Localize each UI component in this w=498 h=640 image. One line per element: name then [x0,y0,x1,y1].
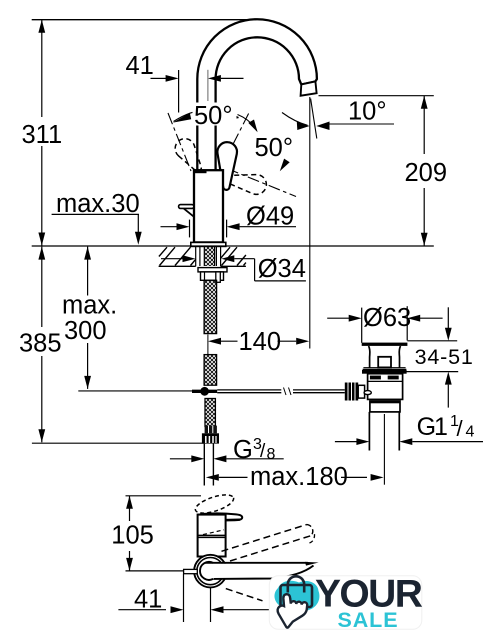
popup rod [217,389,281,391]
dimension 34-51 [407,340,457,342]
svg-text:41: 41 [126,52,154,80]
dimension 311 [41,20,43,246]
drain knob [378,357,391,368]
pivot knurled nut [345,383,358,401]
dimension D34 [161,258,183,260]
svg-text:300: 300 [64,317,107,345]
logo shopping bag [281,585,313,607]
base flange [191,242,226,246]
side tab [179,205,194,209]
label 50 deg second [253,136,299,159]
dimension max180 [206,474,219,481]
centerline right lower [227,169,296,197]
arc 10 deg [282,113,308,126]
svg-text:311: 311 [22,121,63,149]
svg-text:209: 209 [405,159,448,187]
svg-text:50°: 50° [255,134,294,162]
dimension G38 [170,458,192,460]
dimension D49 [189,220,191,238]
outlet axis line [309,97,311,349]
bottom view: body [198,515,226,557]
label 50 deg first [193,103,237,126]
aerator [301,81,317,95]
stream 10 deg line [311,99,317,139]
drain: dimension D63 [361,308,363,343]
drain mid flange [363,367,405,369]
shank in hole [199,247,201,266]
drain body [368,374,403,400]
dimension G1 1/4 [335,441,357,443]
logo card [269,576,422,630]
dimension 41 top [178,70,180,113]
supply hose A [204,280,217,333]
wire top reference line [32,19,249,21]
centerline right upper [225,114,249,162]
supply hose C [205,399,215,427]
hose break tick (140 extension) [207,335,209,355]
drain collar [370,401,400,412]
svg-text:/: / [457,416,464,441]
svg-text:max.: max. [62,292,117,320]
lever solid [217,142,237,190]
bottom view: solid lever knob [198,513,242,520]
svg-text:Ø63: Ø63 [363,304,411,332]
svg-text:8: 8 [267,446,276,463]
lever ghost right dashed [224,175,266,195]
supply hose B [204,355,217,386]
bottom view: side tab [184,569,198,573]
popup rod left reference [78,390,192,392]
bottom view: dashed swung spout [222,525,307,552]
centerline left 50 [168,113,191,171]
lever ghost left dashed [175,139,201,172]
spout neck line [301,81,315,84]
svg-text:G1: G1 [417,413,447,441]
G38 connector block [205,426,217,434]
dimension 140 [208,338,221,345]
svg-text:10°: 10° [348,98,387,126]
svg-text:105: 105 [111,522,154,550]
bottom view: dashed raised lever [193,491,235,517]
deck hatching left [159,247,196,265]
hose-end reference line [32,442,204,444]
bottom view: dashed swing line lower [226,589,263,601]
bottom view: dimension 105 [129,496,131,521]
arc 50 deg left [174,110,239,122]
svg-text:G: G [233,436,253,464]
svg-text:140: 140 [239,328,282,356]
spout outer wall [197,19,317,171]
logo hand [278,594,308,628]
deck hatching right [221,247,246,265]
deck bottom lines [159,265,196,267]
deck top line [32,245,434,247]
washer under deck [198,268,227,272]
deck hole edges [195,246,197,266]
spout inner wall [216,37,302,171]
faucet body [194,170,223,242]
svg-text:50°: 50° [194,102,233,130]
svg-text:max.180: max.180 [250,463,348,491]
arc 50 deg right [238,115,257,131]
dimension 209 [319,95,434,97]
supply pipe end [203,444,205,486]
logo teal blob [274,581,319,612]
max300 dimension [87,247,89,296]
svg-text:Ø49: Ø49 [246,202,294,230]
svg-text:34-51: 34-51 [415,345,474,369]
drain neck [369,346,370,368]
bottom view: spout tube [208,564,317,579]
svg-text:/: / [260,441,266,462]
svg-text:4: 4 [466,424,475,441]
mounting nut [201,272,224,280]
junction [192,390,217,393]
svg-text:385: 385 [19,330,62,358]
tailpiece [368,412,370,451]
G38 nut [202,433,219,443]
svg-text:SALE: SALE [338,608,399,632]
drain flange bar [362,343,408,346]
svg-text:Ø34: Ø34 [258,255,306,283]
dimension 385 [41,247,43,327]
bottom view: circle rings [194,555,227,588]
